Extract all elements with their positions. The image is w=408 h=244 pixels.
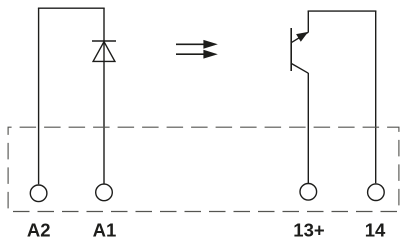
wire input top rail	[38, 7, 105, 9]
svg-text:A2: A2	[27, 220, 51, 241]
module outline dashed box	[8, 127, 399, 211]
diode V1 cathode bar	[92, 40, 116, 42]
terminal A1	[96, 184, 113, 201]
svg-text:13+: 13+	[293, 220, 325, 241]
wire output top rail	[308, 10, 377, 12]
transistor Q1 collector lead	[291, 63, 308, 73]
wire emitter riser	[307, 11, 309, 32]
svg-text:A1: A1	[93, 220, 117, 241]
wire A1 vertical	[103, 8, 105, 184]
wire 13+ vertical	[307, 73, 309, 183]
optocoupler arrow lower	[176, 50, 218, 59]
wire A2 vertical	[38, 8, 40, 184]
transistor Q1 emitter lead with arrow	[291, 32, 308, 43]
terminal A2	[30, 185, 47, 202]
optocoupler arrow upper	[176, 40, 218, 49]
transistor Q1 base bar	[290, 28, 292, 71]
terminal 13+	[300, 184, 317, 201]
wire 14 vertical	[375, 11, 377, 183]
diode V1 triangle	[93, 42, 115, 62]
svg-text:14: 14	[365, 220, 386, 241]
terminal 14	[368, 184, 385, 201]
